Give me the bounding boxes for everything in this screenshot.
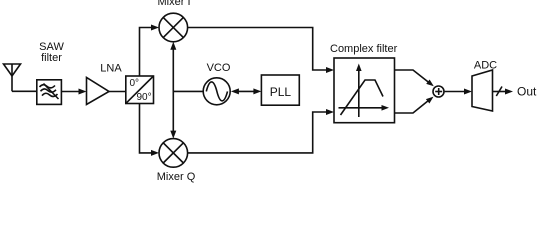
wire phase splitter to Mixer Q (140, 104, 160, 156)
label ADC (474, 59, 497, 71)
svg-text:Mixer I: Mixer I (158, 0, 191, 8)
amplifier LNA (87, 78, 110, 105)
label Mixer I (158, 0, 191, 8)
mixer Mixer Q (159, 139, 188, 168)
svg-text:Out: Out (517, 85, 537, 99)
wire LNA to phase splitter (109, 91, 126, 93)
phase splitter 0/90 (126, 76, 154, 104)
svg-text:VCO: VCO (207, 62, 231, 74)
svg-text:90°: 90° (137, 92, 152, 103)
complex filter (334, 58, 395, 123)
svg-text:PLL: PLL (270, 85, 292, 99)
label Complex filter (330, 43, 398, 55)
wire ADC to Out with bus slash (493, 87, 514, 97)
label VCO (207, 62, 231, 74)
wire phase splitter to Mixer I (140, 25, 160, 77)
wire SAW filter to LNA (61, 89, 86, 95)
svg-text:filter: filter (41, 52, 62, 64)
label LNA (100, 63, 122, 75)
wire summer to ADC (445, 89, 472, 95)
oscillator VCO (203, 78, 230, 105)
label SAW filter (39, 41, 64, 64)
wire VCO to PLL double arrow (231, 88, 262, 94)
svg-text:LNA: LNA (100, 63, 122, 75)
svg-text:Complex filter: Complex filter (330, 43, 398, 55)
wire antenna to SAW filter (12, 90, 37, 92)
antenna (4, 64, 21, 91)
label Mixer Q (157, 171, 196, 183)
wire Mixer I to complex filter (188, 28, 334, 74)
svg-text:ADC: ADC (474, 59, 497, 71)
wire complex filter top output to summer (395, 70, 434, 86)
summer (433, 86, 444, 97)
PLL (261, 75, 299, 105)
label Out (517, 85, 537, 99)
wire Mixer Q to complex filter (188, 109, 334, 153)
ADC (472, 70, 493, 111)
wire VCO to mixer LO rail (170, 42, 203, 139)
SAW filter (37, 80, 62, 105)
wire complex filter bottom output to summer (395, 97, 434, 113)
svg-text:0°: 0° (130, 78, 140, 89)
svg-text:Mixer Q: Mixer Q (157, 171, 196, 183)
mixer Mixer I (159, 13, 188, 42)
